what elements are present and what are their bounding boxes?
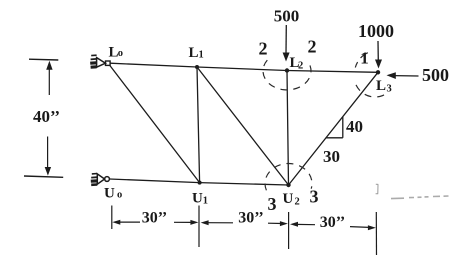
dimension 40'' bottom tick [24,176,63,177]
svg-text:1: 1 [199,50,204,61]
member vertical L1-U1 [197,67,200,183]
svg-text:500: 500 [274,7,300,26]
member diagonal U2-L3 [289,72,379,185]
dimension 30'' third [290,214,376,231]
label L3 [376,78,392,95]
faint scan artifact bracket [376,184,379,194]
dimension 40'' top tick [29,58,58,61]
support at L0 [90,55,105,67]
label U0 [104,186,122,202]
dimension 40'' lower arrow [45,137,51,176]
extension line below L3 [375,212,377,255]
svg-text:1: 1 [360,49,369,68]
svg-text:40: 40 [346,117,363,136]
svg-text:40’’: 40’’ [33,107,60,126]
node L0 [106,61,111,65]
svg-text:L: L [376,78,386,94]
member diagonal L1-U2 [197,67,289,185]
svg-text:2: 2 [298,61,303,72]
svg-text:o: o [117,190,122,201]
svg-text:o: o [118,48,123,59]
label U2 [283,191,300,208]
svg-text:30’’: 30’’ [142,210,167,227]
dimension 30'' first [112,210,198,227]
extension line below U1 [198,206,200,248]
svg-text:U: U [104,186,115,202]
svg-text:500: 500 [422,65,449,85]
label L0 [109,45,124,61]
section cut 1-1 dashed arc at L3 upper-left [355,53,368,68]
svg-text:1: 1 [203,196,208,207]
svg-text:30’’: 30’’ [238,210,263,227]
extension line below U2 [288,212,290,249]
member top chord L1-L2 [197,67,287,71]
load 500 down at L2 [274,7,300,62]
svg-text:1000: 1000 [358,21,394,41]
node L2 [285,68,289,72]
section cut 3-3 dashed circle at U2 [265,164,312,191]
svg-text:2: 2 [308,37,317,57]
svg-text:L: L [189,45,199,61]
svg-text:3: 3 [268,194,277,214]
svg-text:30’’: 30’’ [320,214,345,231]
svg-text:30: 30 [323,147,340,166]
svg-text:U: U [192,191,203,207]
section cut 1-1 dashed arc at L3 bottom [356,85,386,97]
member bottom chord U1-U2 [200,183,289,185]
svg-text:2: 2 [259,39,268,59]
section cut 2-2 dashed circle at L2 [263,60,311,90]
node L1 [195,65,199,69]
member top chord L0-L1 [110,63,197,67]
slope triangle horizontal leg [326,137,343,139]
svg-text:3: 3 [310,187,319,207]
label L1 [189,45,204,61]
slope triangle vertical leg [342,117,344,138]
node L3 [376,70,380,74]
load 1000 down at L3 [358,21,394,69]
svg-text:3: 3 [387,84,392,95]
label L2 [290,55,304,72]
dimension 40'' upper arrow [46,61,52,95]
svg-text:U: U [283,191,294,207]
member top chord L2-L3 [287,71,378,73]
dimension 30'' second [201,210,288,227]
faint scan artifact dashes [391,196,449,199]
member vertical L2-U2 [287,71,289,186]
svg-text:2: 2 [295,197,300,208]
member diagonal L0-U1 [110,65,200,183]
node U0 [105,177,110,182]
support at U0 [91,174,105,185]
label U1 [192,191,208,207]
node U1 [198,181,202,185]
node U2 [286,183,290,187]
member bottom chord U0-U1 [110,179,200,183]
load 500 horizontal at L3 [387,65,450,85]
extension line below U0 [111,206,113,230]
